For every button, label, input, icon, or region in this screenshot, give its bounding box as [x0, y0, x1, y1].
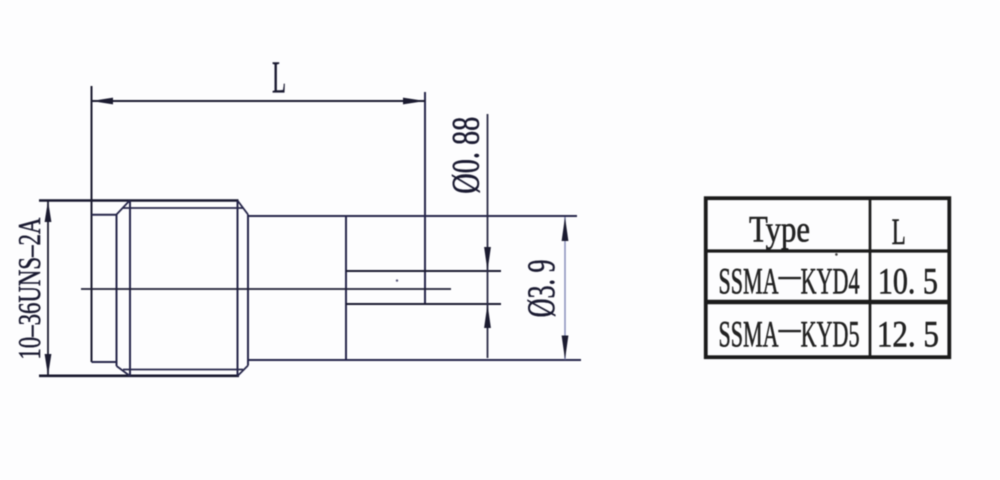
- svg-text:L: L: [272, 52, 286, 102]
- svg-text:12. 5: 12. 5: [877, 315, 939, 356]
- svg-text:SSMA—KYD5: SSMA—KYD5: [719, 308, 860, 356]
- svg-text:10–36UNS–2A: 10–36UNS–2A: [11, 218, 47, 360]
- svg-text:SSMA—KYD4: SSMA—KYD4: [719, 254, 860, 302]
- svg-text:Type: Type: [749, 210, 810, 251]
- svg-text:L: L: [892, 212, 906, 253]
- svg-text:10. 5: 10. 5: [878, 261, 938, 302]
- svg-text:Ø3. 9: Ø3. 9: [520, 259, 563, 317]
- svg-text:Ø0. 88: Ø0. 88: [445, 117, 488, 194]
